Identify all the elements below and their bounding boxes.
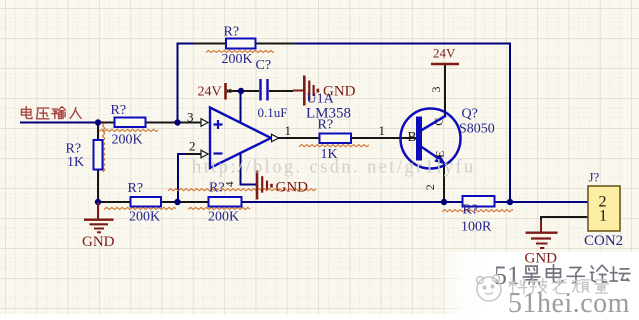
svg-text:24V: 24V [433,46,456,61]
wire bottom horizontal net [98,201,588,203]
pin wire op-amp non-inverting input pin 3 [178,122,202,124]
resistor R? 200K bottom-middle [209,197,242,207]
wire inverting input drop: pin2 to bottom net [177,153,179,202]
compile-error squiggle under bottom-middle 200K [188,207,250,209]
ground symbol bottom-left earth [84,202,114,232]
junction bottom net below pin2 [174,199,180,205]
svg-text:S8050: S8050 [459,122,495,137]
text 入 of 电压输入 [70,107,81,118]
compile-error squiggle long above bottom-middle 200K [168,189,316,191]
wire op-amp V+ pin 8 vertical [240,91,242,122]
wire 24V bar to C cap and op-amp pin8 (black) [227,90,259,92]
svg-text:GND: GND [276,180,309,196]
resistor R? 200K bottom-left [131,197,162,207]
pin stubs of input 200K resistor (black) [98,122,114,124]
watermark 子 [567,268,584,284]
transistor base bar [416,117,422,161]
wire transistor emitter down to bottom net [443,162,445,202]
svg-text:200K: 200K [222,52,253,67]
watermark 黑 [523,266,540,284]
ground symbol op-amp pin4 (rotated earth) [257,171,273,200]
svg-text:R?: R? [128,181,144,196]
wire feedback top horizontal [177,43,512,45]
junction bottom net at 1K/GND [95,199,101,205]
resistor R? 200K input (series to +in) [115,118,146,128]
svg-text:R?: R? [224,25,240,40]
svg-text:3: 3 [187,110,194,125]
pin stubs on bottom net near divider resistors (black) [98,201,131,203]
junction emitter at bottom net [441,199,447,205]
watermark 论 [591,265,608,282]
pin arrow glyph at pin 3 [201,119,208,127]
connector J? CON2 body [588,186,620,231]
op-amp plus marker [214,120,223,129]
op-amp minus marker [214,152,223,154]
wire feedback left vertical (top wire down to +input node) [177,43,179,123]
svg-text:24V: 24V [198,85,222,100]
power port 24V bar (transistor collector) [431,63,459,66]
watermark stamp panda doodle [477,275,502,301]
svg-text:http://blog. csdn. net/gr1lyfu: http://blog. csdn. net/gr1lyfu [192,158,476,178]
compile-error squiggle vertical along 1K [103,123,105,172]
svg-text:200K: 200K [208,210,239,225]
text 输 of 电压输入 [52,107,66,119]
svg-text:Q?: Q? [462,107,478,122]
compile-error squiggle under bottom-left 200K [104,207,176,209]
watermark stamp 童 [595,278,609,293]
resistor R? 200K top feedback [226,39,256,49]
pin wire op-amp output pin 1 to R 1K [278,137,320,139]
pin stubs of top feedback 200K resistor (black) [193,43,226,45]
svg-text:GND: GND [323,84,356,100]
svg-text:GND: GND [525,251,558,267]
svg-text:1: 1 [599,208,607,225]
svg-text:2: 2 [189,139,196,154]
svg-text:8: 8 [224,89,235,94]
white strip at bottom edge [0,314,639,320]
text 压 of 电压输入 [37,108,49,119]
pin arrow glyph at pin 2 [201,150,208,158]
resistor R? 1K op-amp output [320,134,352,144]
svg-text:4: 4 [224,181,236,187]
svg-text:C?: C? [256,58,272,73]
watermark stamp 老 [552,278,566,293]
wire op-amp V- pin 4 vertical and jog to GND bars [241,154,257,185]
svg-text:200K: 200K [112,133,143,148]
svg-text:J?: J? [589,170,600,185]
svg-text:GND: GND [82,234,115,250]
watermark stamp 科 [509,278,527,294]
svg-text:C: C [431,118,445,126]
watermark 坛 [610,267,630,281]
transistor Q? S8050 circle [401,109,461,169]
capacitor C? 0.1uF plates [261,79,268,101]
transistor emitter diagonal [421,147,440,160]
compile-error squiggle under 100R [442,210,513,212]
wire input net from left edge to R divider node [20,122,98,124]
svg-text:R?: R? [111,103,127,118]
svg-text:1: 1 [379,123,386,138]
svg-text:CON2: CON2 [584,233,623,249]
svg-text:R?: R? [209,181,225,196]
junction +input node [174,119,180,125]
svg-text:B: B [408,129,417,144]
ground symbol bottom-right earth [526,220,558,248]
transistor collector diagonal [421,116,446,131]
svg-text:200K: 200K [129,210,160,225]
op-amp U1A LM358 triangle [210,108,271,169]
ground symbol right of cap (rotated earth) [293,76,319,106]
resistor R? 1K vertical to GND [94,140,103,170]
junction 24V rail at cap [238,88,244,94]
svg-text:1: 1 [285,123,292,138]
junction bottom net at right vertical [507,199,513,205]
svg-text:LM358: LM358 [306,106,351,122]
compile-error squiggle under output 1K [299,145,369,147]
text 电 of 电压输入 [21,106,32,118]
power port 24V bar (op-amp supply) [224,83,227,100]
compile-error squiggle under input 200K [99,129,158,131]
svg-text:51hei.com: 51hei.com [508,288,630,319]
watermark 电 [547,265,563,283]
pin wire op-amp inverting input pin 2 [186,153,202,155]
wire 24V bar to transistor collector [444,64,446,116]
svg-text:0.1uF: 0.1uF [258,105,288,120]
wire right vertical from top wire down to output net [509,43,511,203]
wire connector pin1 to GND corner (black) [541,217,588,222]
wire R 1K to transistor base [351,137,417,139]
pin arrow glyph at output pin 1 [272,134,279,142]
svg-text:R?: R? [463,203,479,218]
watermark stamp 顽 [572,280,590,293]
svg-text:100R: 100R [461,220,492,235]
pin stubs of vertical 1K resistor (black) [97,123,99,142]
transistor emitter arrowhead [434,154,446,164]
resistor R? 100R bottom-right [463,196,495,207]
junction input/divider node [95,119,101,125]
svg-text:2: 2 [423,184,437,190]
compile-error squiggle under top 200K [206,50,274,52]
svg-text:1K: 1K [67,155,84,170]
svg-text:3: 3 [429,87,443,93]
watermark stamp 技 [530,279,547,294]
